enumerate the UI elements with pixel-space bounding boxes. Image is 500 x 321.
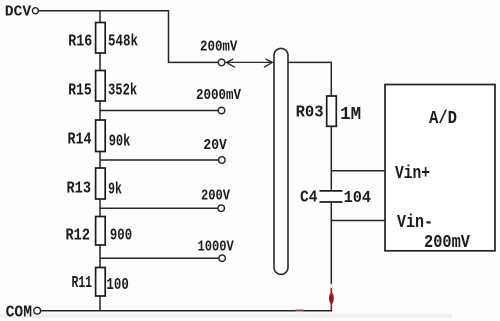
- svg-text:9k: 9k: [108, 180, 122, 199]
- wire COM rail: [41, 310, 332, 312]
- svg-text:R15: R15: [68, 82, 92, 101]
- node 200mV tap terminal: [200, 39, 237, 66]
- wire Vin+: [331, 170, 385, 172]
- resistor R13: [67, 168, 122, 199]
- svg-text:352k: 352k: [108, 82, 137, 101]
- wire C4 bottom plate to COM rail: [330, 202, 332, 311]
- wire 200V tap: [100, 207, 218, 209]
- svg-text:R12: R12: [66, 226, 91, 245]
- svg-text:R16: R16: [68, 32, 92, 51]
- wire 20V tap: [100, 159, 218, 161]
- capacitor C4: [300, 189, 371, 208]
- selector wiper double arrow: [227, 59, 273, 67]
- rotary switch slot: [274, 48, 288, 274]
- node COM terminal: [6, 303, 41, 321]
- chip A/D converter box: [385, 85, 495, 251]
- resistor R11: [72, 268, 129, 297]
- node 20V tap terminal: [203, 137, 226, 163]
- svg-text:2000mV: 2000mV: [196, 87, 241, 104]
- wire DCV top rail to 200mV tap: [39, 11, 219, 63]
- wire Vin-: [331, 220, 385, 222]
- node 2000mV tap terminal: [196, 87, 241, 114]
- svg-text:1000V: 1000V: [198, 239, 234, 256]
- svg-text:200mV: 200mV: [200, 39, 237, 56]
- wire R03 to C4 top plate: [330, 126, 332, 190]
- svg-text:200mV: 200mV: [424, 233, 470, 253]
- svg-text:R11: R11: [72, 274, 93, 293]
- svg-text:548k: 548k: [108, 32, 138, 51]
- svg-text:90k: 90k: [109, 133, 131, 152]
- svg-text:R13: R13: [67, 180, 92, 199]
- svg-text:R14: R14: [68, 130, 92, 149]
- resistor R03: [296, 96, 362, 126]
- resistor R14: [68, 120, 131, 152]
- svg-text:1M: 1M: [340, 105, 361, 125]
- svg-text:R03: R03: [296, 104, 324, 123]
- node DCV terminal: [5, 4, 39, 21]
- node 1000V tap terminal: [198, 239, 234, 262]
- svg-text:900: 900: [110, 226, 132, 245]
- wire resistor divider chain: [99, 11, 101, 311]
- svg-text:20V: 20V: [203, 137, 226, 154]
- svg-text:104: 104: [344, 189, 372, 208]
- svg-text:A/D: A/D: [429, 109, 457, 129]
- svg-text:C4: C4: [300, 189, 317, 208]
- node 200V tap terminal: [201, 187, 230, 211]
- wire switch output to R03: [288, 62, 331, 96]
- svg-text:200V: 200V: [201, 187, 230, 204]
- resistor R16: [68, 23, 138, 54]
- svg-text:100: 100: [106, 276, 128, 295]
- svg-text:Vin-: Vin-: [397, 213, 433, 233]
- red annotation mark: [296, 284, 334, 312]
- wire 2000mV tap: [100, 110, 218, 112]
- svg-text:Vin+: Vin+: [395, 164, 430, 184]
- svg-text:COM: COM: [6, 303, 32, 321]
- resistor R15: [68, 71, 137, 102]
- resistor R12: [66, 217, 133, 246]
- wire 1000V tap: [100, 257, 219, 259]
- svg-text:DCV: DCV: [5, 4, 31, 21]
